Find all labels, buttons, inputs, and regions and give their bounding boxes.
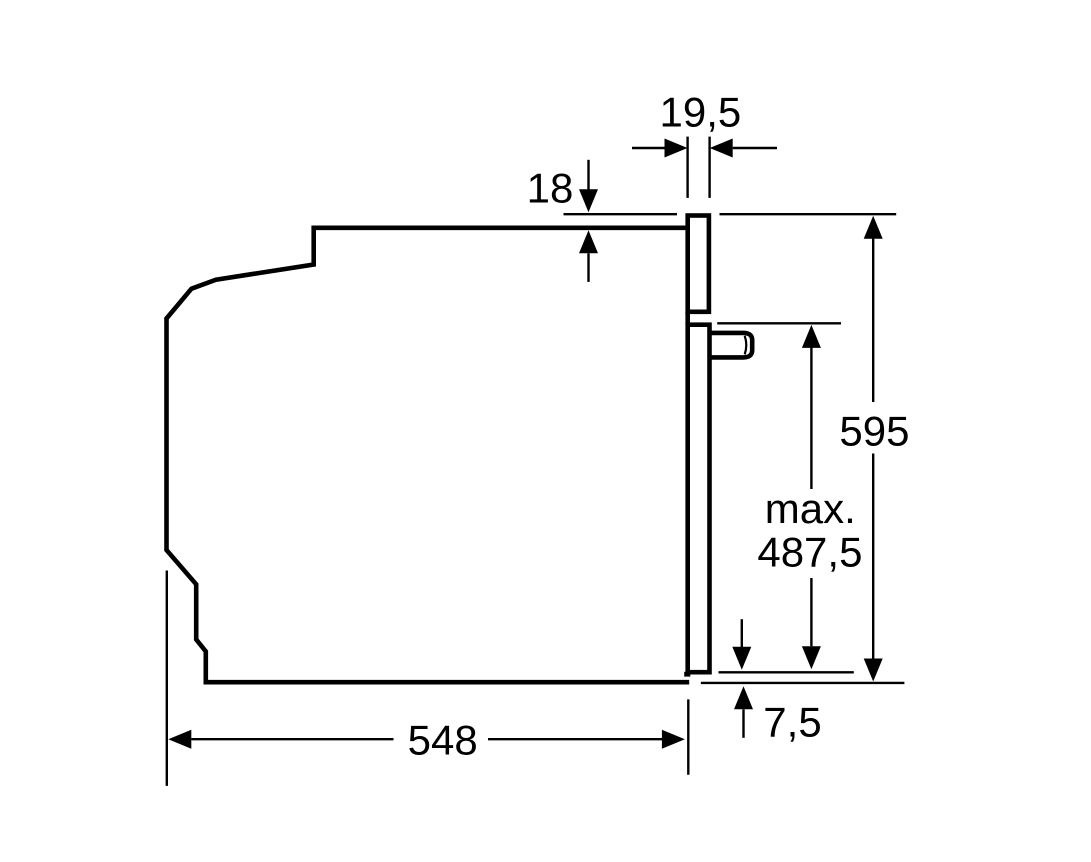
top reference line left segment [564, 213, 678, 215]
548 left arrow [168, 730, 191, 749]
19,5 left arrow [632, 147, 665, 149]
svg-text:18: 18 [527, 165, 574, 212]
door panel [688, 216, 709, 312]
bottom reference line [701, 682, 905, 684]
top reference line right segment [720, 213, 897, 215]
7,5 up arrow [734, 686, 753, 709]
595 dimension line upper segment [872, 238, 874, 402]
max. 487,5 top extension line [717, 322, 841, 324]
19,5 right arrow [733, 147, 777, 149]
19,5 extension line right [708, 137, 710, 198]
door-to-front connector strip [685, 312, 690, 324]
svg-text:595: 595 [839, 408, 909, 455]
svg-text:19,5: 19,5 [660, 88, 742, 135]
548 left extension line [166, 571, 168, 786]
19,5 extension line left [686, 137, 688, 198]
svg-text:487,5: 487,5 [757, 528, 862, 575]
595 up arrow [864, 216, 883, 239]
svg-text:548: 548 [408, 716, 478, 763]
handle [710, 333, 752, 358]
max. 487,5 bottom extension line [719, 671, 854, 673]
595 dimension line lower segment [872, 454, 874, 660]
487,5 up arrow [802, 325, 821, 348]
18 down arrow [587, 160, 589, 190]
548 right extension line [687, 699, 689, 774]
svg-text:7,5: 7,5 [763, 699, 821, 746]
lower front panel [688, 325, 710, 673]
lower front panel foot nub [684, 672, 690, 677]
595 down arrow [864, 659, 883, 682]
487,5 down arrow [802, 646, 821, 669]
7,5 down arrow [741, 619, 743, 647]
487,5 dimension line lower segment [810, 578, 812, 646]
18 up arrow [587, 253, 589, 282]
oven body outline [167, 228, 690, 682]
handle inner arc [745, 336, 747, 355]
548 right segment and arrow [488, 738, 662, 740]
svg-text:max.: max. [765, 485, 856, 532]
487,5 dimension line upper segment [810, 348, 812, 490]
